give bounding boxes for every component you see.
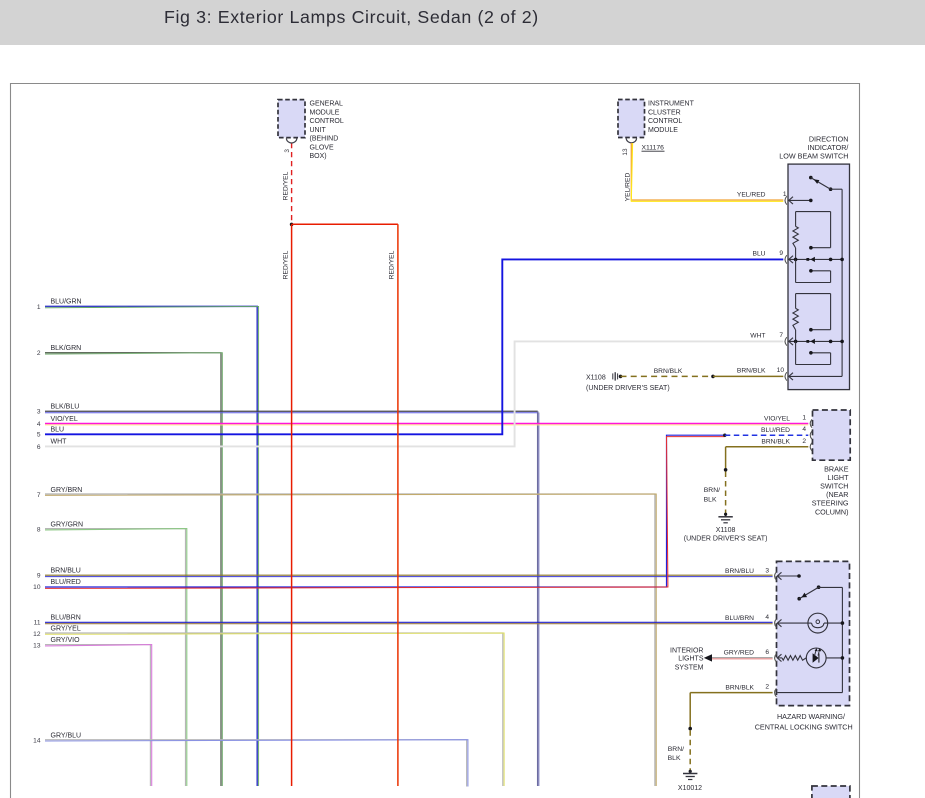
svg-text:BLU/BRN: BLU/BRN [725, 615, 754, 622]
svg-text:WHT: WHT [51, 439, 68, 446]
svg-text:HAZARD WARNING/: HAZARD WARNING/ [777, 712, 845, 721]
svg-text:4: 4 [765, 614, 769, 621]
svg-text:4: 4 [802, 426, 806, 433]
svg-text:BLU/BRN: BLU/BRN [51, 615, 81, 622]
svg-text:10: 10 [777, 367, 785, 374]
svg-text:(UNDER DRIVER'S SEAT): (UNDER DRIVER'S SEAT) [684, 536, 768, 543]
svg-text:3: 3 [37, 409, 41, 416]
svg-text:BLU/RED: BLU/RED [51, 579, 81, 586]
svg-text:YEL/RED: YEL/RED [737, 192, 766, 199]
svg-text:GRY/BLU: GRY/BLU [51, 732, 82, 739]
svg-text:LIGHTS: LIGHTS [678, 655, 704, 662]
svg-text:COLUMN): COLUMN) [815, 507, 849, 516]
svg-text:VIO/YEL: VIO/YEL [51, 416, 78, 423]
svg-text:CONTROL: CONTROL [310, 118, 344, 125]
svg-text:7: 7 [779, 332, 783, 339]
svg-text:13: 13 [33, 642, 41, 649]
svg-text:BRN/BLK: BRN/BLK [761, 439, 790, 446]
svg-text:BLU: BLU [51, 427, 65, 434]
svg-text:X1108: X1108 [586, 374, 606, 381]
svg-text:9: 9 [37, 573, 41, 580]
svg-text:(BEHIND: (BEHIND [310, 136, 339, 143]
svg-text:12: 12 [33, 631, 41, 638]
svg-text:9: 9 [779, 250, 783, 257]
svg-text:BOX): BOX) [310, 153, 327, 160]
svg-text:BLK/GRN: BLK/GRN [51, 345, 82, 352]
svg-text:CLUSTER: CLUSTER [648, 109, 681, 116]
svg-text:BLK: BLK [668, 755, 681, 762]
svg-text:BLU/GRN: BLU/GRN [51, 299, 82, 306]
svg-text:MODULE: MODULE [310, 109, 340, 116]
svg-text:GRY/GRN: GRY/GRN [51, 521, 84, 528]
svg-text:BRN/BLU: BRN/BLU [725, 568, 754, 575]
svg-text:X10012: X10012 [678, 785, 702, 792]
svg-text:(UNDER DRIVER'S SEAT): (UNDER DRIVER'S SEAT) [586, 385, 670, 392]
svg-text:BRN/BLK: BRN/BLK [725, 684, 754, 691]
svg-text:GLOVE: GLOVE [310, 144, 334, 151]
svg-text:3: 3 [765, 567, 769, 574]
svg-text:1: 1 [37, 304, 41, 311]
svg-text:Fig 3: Exterior Lamps Circuit,: Fig 3: Exterior Lamps Circuit, Sedan (2 … [164, 7, 539, 27]
svg-text:BLU/RED: BLU/RED [761, 427, 790, 434]
svg-text:2: 2 [765, 684, 769, 691]
svg-text:BRN/: BRN/ [668, 746, 684, 753]
svg-text:BRN/BLU: BRN/BLU [51, 568, 81, 575]
svg-text:UNIT: UNIT [310, 127, 327, 134]
svg-text:INSTRUMENT: INSTRUMENT [648, 101, 695, 108]
svg-text:11: 11 [34, 620, 41, 627]
svg-text:VIO/YEL: VIO/YEL [764, 415, 790, 422]
svg-text:RED/YEL: RED/YEL [283, 171, 290, 200]
svg-text:1: 1 [783, 191, 787, 198]
svg-text:RED/YEL: RED/YEL [283, 250, 290, 279]
svg-text:LOW BEAM SWITCH: LOW BEAM SWITCH [779, 151, 848, 160]
svg-text:X11176: X11176 [642, 145, 665, 152]
svg-text:SYSTEM: SYSTEM [675, 664, 704, 671]
svg-text:BRN/: BRN/ [704, 487, 720, 494]
svg-text:CENTRAL LOCKING SWITCH: CENTRAL LOCKING SWITCH [755, 722, 853, 731]
svg-text:WHT: WHT [750, 333, 765, 340]
svg-text:6: 6 [37, 444, 41, 451]
svg-text:10: 10 [33, 584, 41, 591]
svg-text:4: 4 [37, 421, 41, 428]
svg-text:CONTROL: CONTROL [648, 118, 682, 125]
svg-text:INTERIOR: INTERIOR [670, 648, 703, 655]
svg-text:5: 5 [37, 432, 41, 439]
svg-text:GRY/YEL: GRY/YEL [51, 626, 81, 633]
svg-text:1: 1 [802, 415, 806, 422]
svg-text:X1108: X1108 [716, 527, 736, 534]
svg-text:GRY/RED: GRY/RED [724, 650, 755, 657]
svg-text:13: 13 [622, 148, 629, 156]
svg-text:RED/YEL: RED/YEL [389, 250, 396, 279]
svg-text:6: 6 [765, 649, 769, 656]
svg-text:BRN/BLK: BRN/BLK [737, 368, 766, 375]
svg-text:2: 2 [37, 350, 41, 357]
svg-text:7: 7 [37, 492, 41, 499]
svg-text:BRN/BLK: BRN/BLK [654, 368, 683, 375]
svg-text:GENERAL: GENERAL [310, 101, 344, 108]
svg-text:3: 3 [284, 149, 291, 153]
svg-text:YEL/RED: YEL/RED [624, 173, 631, 202]
svg-text:BLK: BLK [704, 496, 717, 503]
svg-text:MODULE: MODULE [648, 127, 678, 134]
svg-text:8: 8 [37, 526, 41, 533]
svg-text:14: 14 [33, 738, 41, 745]
svg-text:GRY/VIO: GRY/VIO [51, 637, 81, 644]
svg-text:BLU: BLU [752, 251, 765, 258]
svg-text:2: 2 [802, 438, 806, 445]
svg-text:BLK/BLU: BLK/BLU [51, 404, 80, 411]
svg-text:GRY/BRN: GRY/BRN [51, 487, 83, 494]
